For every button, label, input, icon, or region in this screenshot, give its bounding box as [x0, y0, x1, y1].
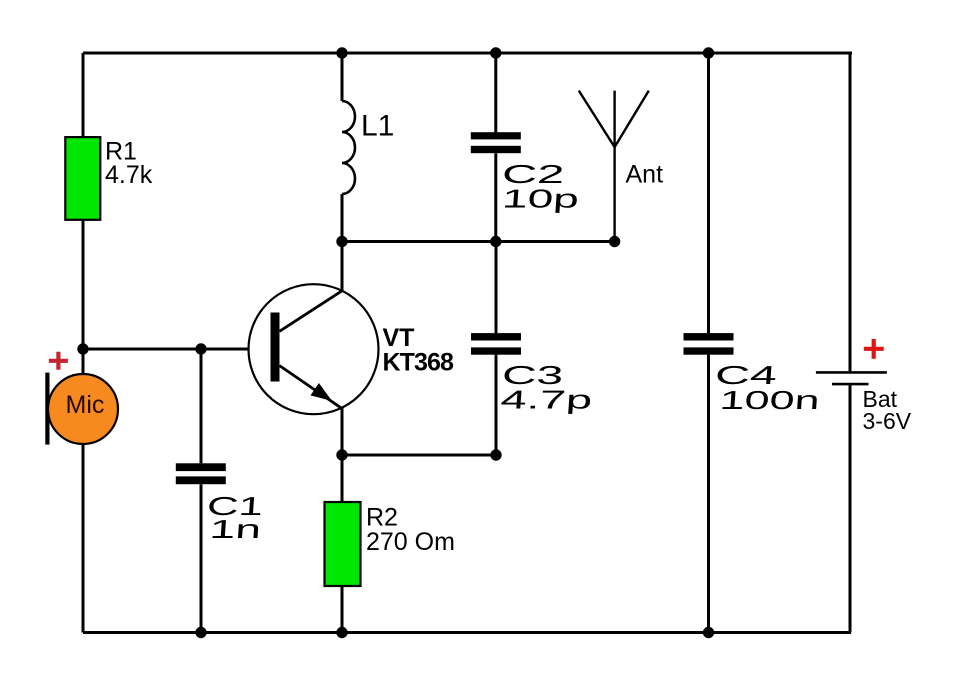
wire base lead	[83, 348, 271, 351]
node: junction dots	[77, 47, 714, 638]
wire C3 top stub	[495, 242, 498, 334]
node top/L1	[336, 47, 347, 58]
capacitor C1 plates	[176, 463, 226, 484]
wire emitter rail	[342, 454, 496, 457]
microphone Mic	[45, 373, 118, 445]
wire C4 bottom stub	[707, 355, 710, 633]
wire C2 top stub	[494, 53, 497, 132]
node top/C4	[703, 47, 714, 58]
wire C1 top stub	[200, 349, 203, 463]
wire battery bottom stub	[849, 385, 852, 632]
wire bottom rail (ground)	[83, 631, 851, 634]
svg-text:1n: 1n	[209, 514, 262, 543]
svg-text:KT368: KT368	[383, 348, 455, 376]
node base/left rail	[77, 343, 88, 354]
svg-text:10p: 10p	[501, 184, 580, 213]
inductor L1	[342, 101, 355, 194]
svg-text:Ant: Ant	[626, 161, 664, 189]
node top/C2	[490, 47, 501, 58]
node tank/L1	[336, 236, 347, 247]
node gnd/C4	[703, 627, 714, 638]
node tank/Ant	[609, 236, 620, 247]
svg-text:Mic: Mic	[66, 391, 105, 419]
svg-text:3-6V: 3-6V	[863, 408, 912, 434]
capacitor C2 plates	[471, 132, 521, 153]
capacitor C4 plates	[684, 333, 734, 355]
wire top rail (V+)	[83, 52, 852, 55]
wire battery top stub	[849, 53, 852, 371]
node tank/C2	[490, 236, 501, 247]
wire emitter stub	[341, 408, 344, 455]
antenna Ant	[579, 91, 649, 242]
capacitor C3 plates	[471, 333, 521, 355]
mic plus sign	[49, 352, 68, 370]
wire C4 top stub	[707, 53, 710, 333]
node base/C1	[195, 343, 206, 354]
battery Bat plates	[816, 372, 887, 384]
node gnd/C1	[195, 627, 206, 638]
resistor R1	[65, 137, 100, 220]
wire C1 bottom stub	[200, 484, 203, 632]
wire L1 top stub	[341, 53, 344, 101]
wire C3 bottom stub	[495, 355, 498, 455]
wire left rail	[82, 53, 85, 633]
wire mid rail (tank node)	[342, 240, 615, 243]
transistor VT KT368	[249, 284, 379, 414]
wire collector stub	[341, 242, 344, 292]
wire R2 top stub	[341, 455, 344, 503]
battery plus sign	[864, 339, 884, 359]
svg-text:270 Om: 270 Om	[366, 528, 455, 556]
resistor R2	[325, 502, 361, 586]
svg-text:L1: L1	[361, 109, 394, 142]
wire L1 bottom stub	[341, 194, 344, 242]
wire R2 bottom stub	[341, 585, 344, 633]
node emitter/C3	[490, 449, 501, 460]
svg-text:4.7k: 4.7k	[105, 161, 153, 189]
node emitter	[336, 449, 347, 460]
node gnd/R2	[336, 627, 347, 638]
svg-text:100n: 100n	[719, 385, 821, 414]
svg-text:4.7p: 4.7p	[500, 386, 594, 415]
wire C2 bottom stub	[494, 153, 497, 241]
